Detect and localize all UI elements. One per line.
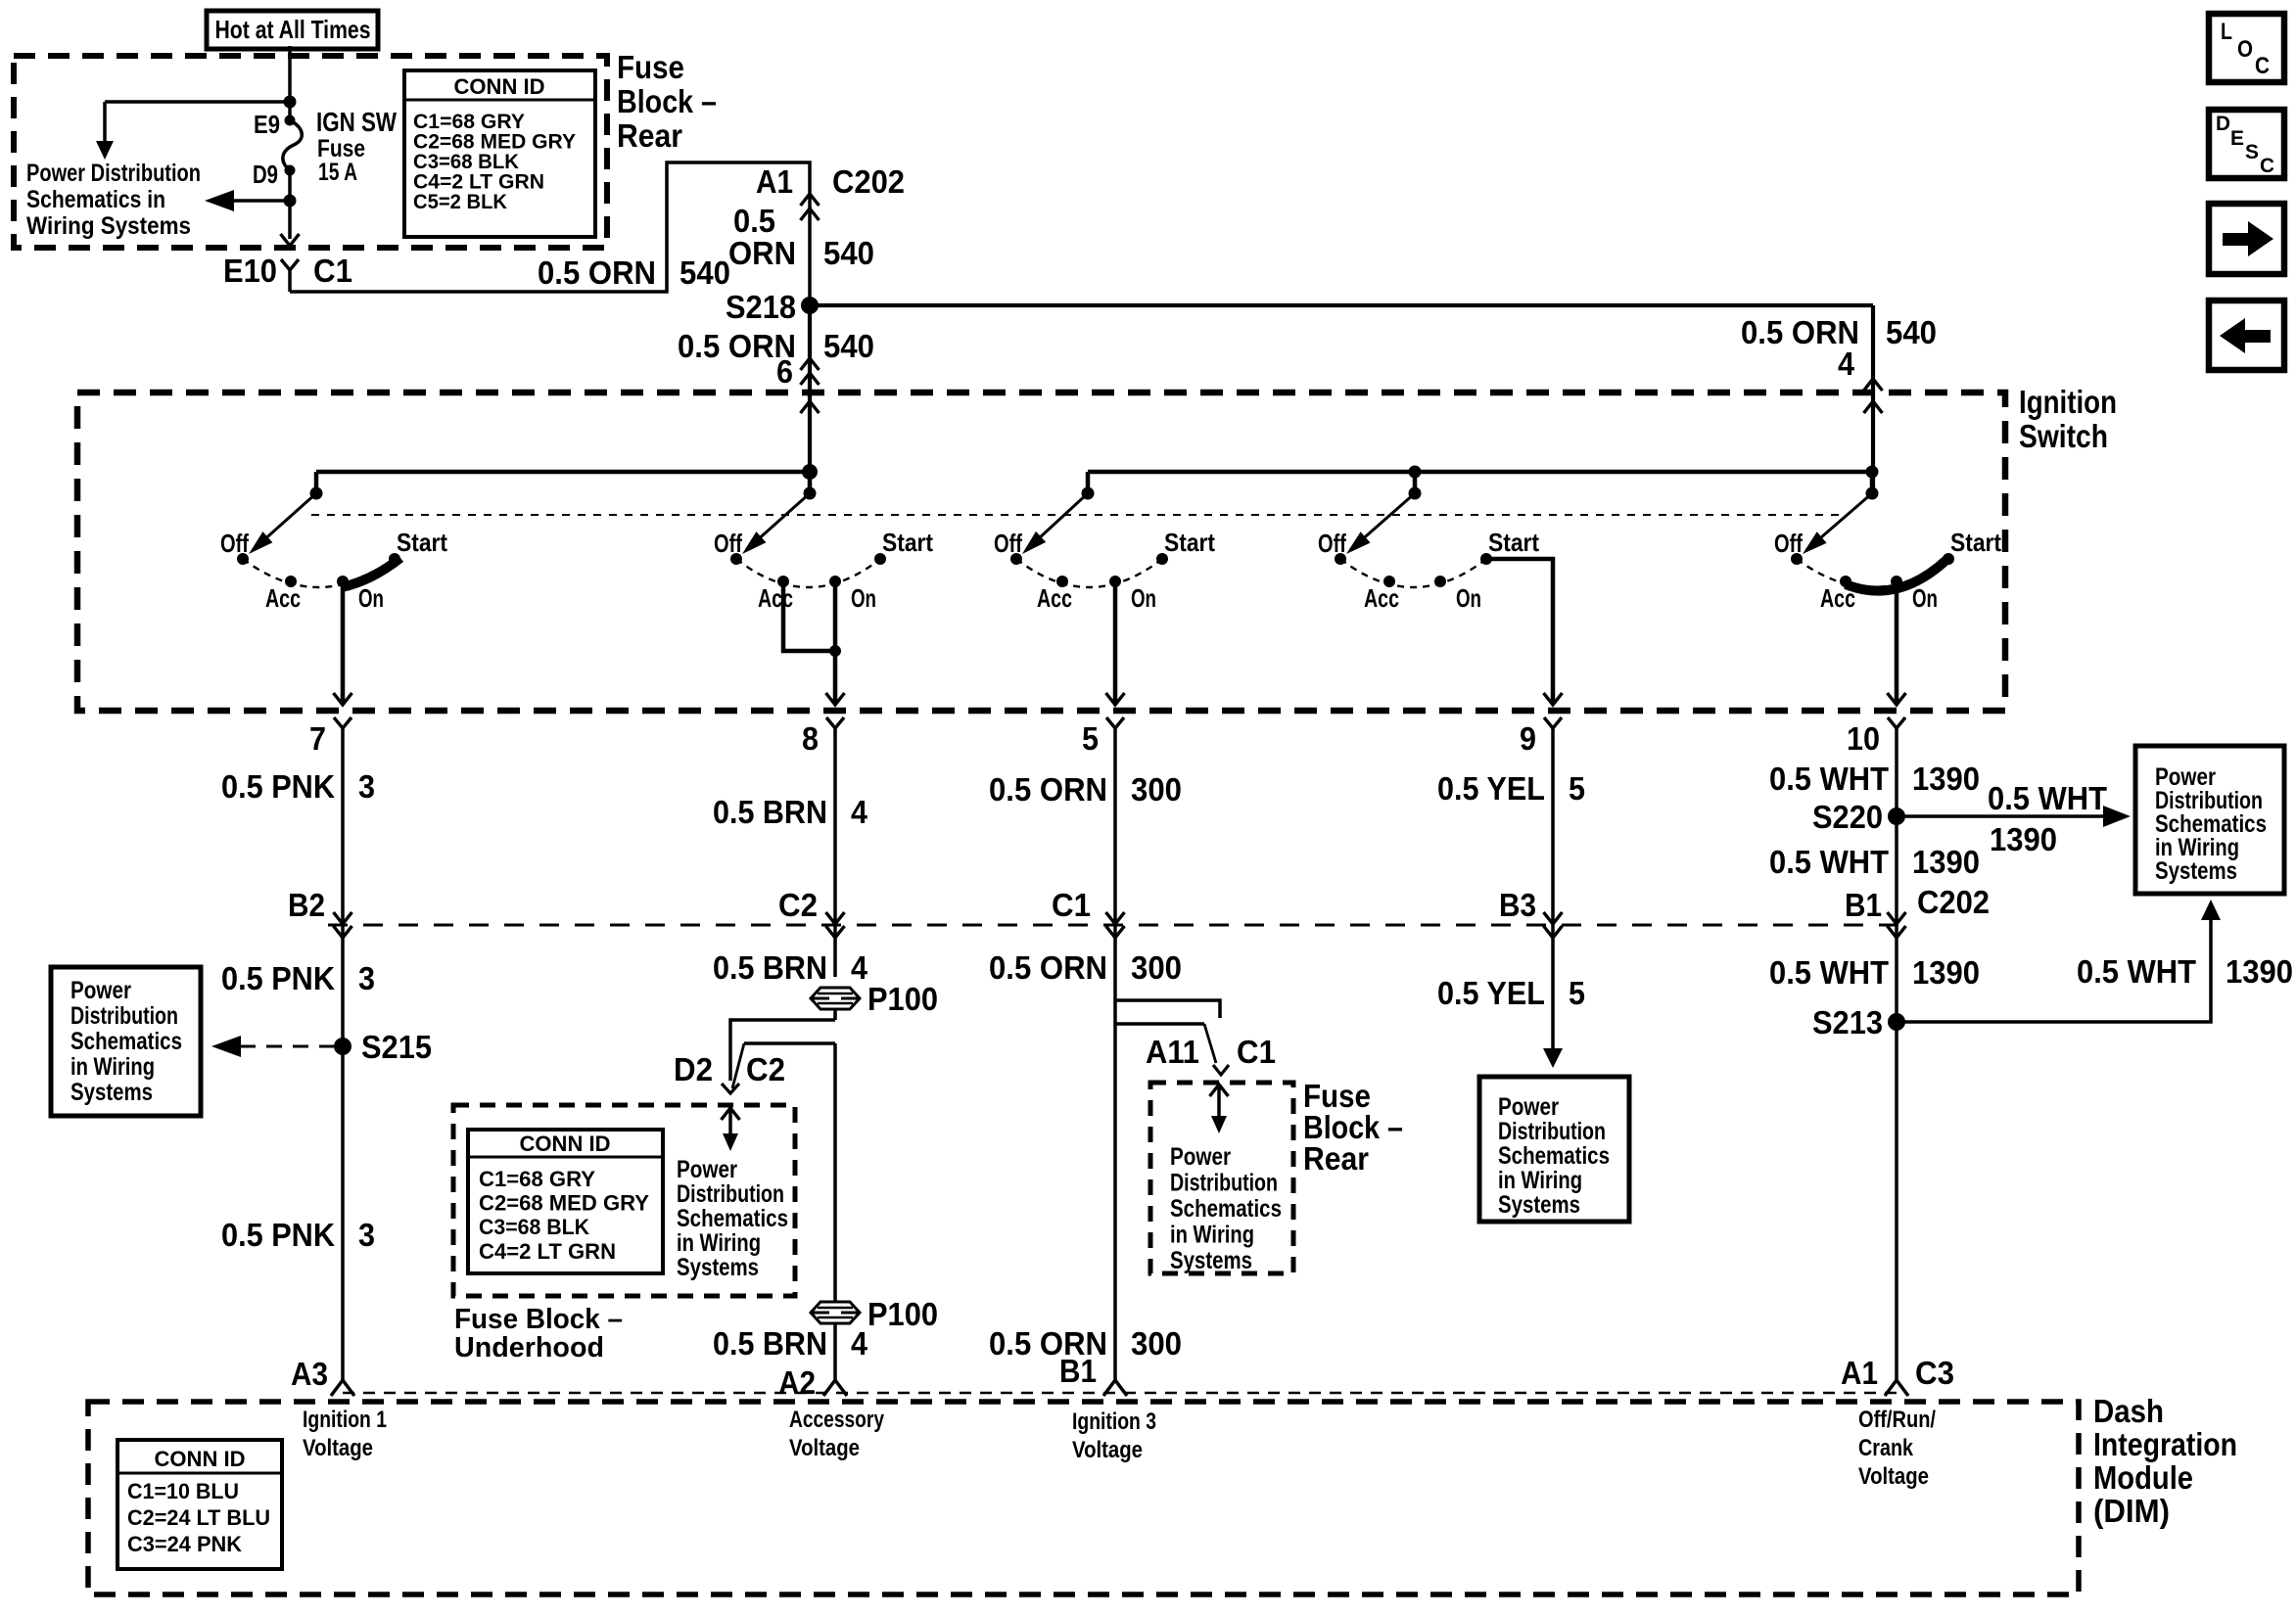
svg-text:C1: C1 xyxy=(313,253,352,289)
svg-text:Ignition 1: Ignition 1 xyxy=(303,1407,387,1433)
svg-text:Power: Power xyxy=(1170,1143,1231,1171)
svg-text:1390: 1390 xyxy=(1912,761,1980,797)
svg-text:A2: A2 xyxy=(778,1364,816,1401)
svg-text:C2: C2 xyxy=(746,1051,785,1087)
svg-text:0.5 PNK: 0.5 PNK xyxy=(221,960,335,996)
svg-text:C2: C2 xyxy=(778,887,818,923)
svg-text:540: 540 xyxy=(679,254,730,291)
svg-text:C3=24 PNK: C3=24 PNK xyxy=(127,1532,242,1556)
svg-text:Acc: Acc xyxy=(1037,583,1072,613)
svg-text:Systems: Systems xyxy=(677,1254,759,1281)
svg-text:On: On xyxy=(1912,583,1938,613)
svg-text:1390: 1390 xyxy=(1912,954,1980,991)
svg-text:0.5: 0.5 xyxy=(733,203,775,239)
svg-text:3: 3 xyxy=(358,768,375,805)
svg-text:0.5 WHT: 0.5 WHT xyxy=(1769,844,1889,880)
svg-text:C1: C1 xyxy=(1237,1034,1276,1070)
svg-text:A11: A11 xyxy=(1146,1034,1199,1070)
svg-text:Systems: Systems xyxy=(1170,1247,1252,1274)
svg-text:Schematics: Schematics xyxy=(1498,1142,1610,1170)
svg-text:C3: C3 xyxy=(1915,1355,1954,1391)
svg-text:CONN ID: CONN ID xyxy=(454,74,545,99)
svg-text:D9: D9 xyxy=(253,160,278,189)
svg-text:Ignition 3: Ignition 3 xyxy=(1072,1409,1156,1435)
svg-text:Wiring Systems: Wiring Systems xyxy=(26,212,191,240)
svg-text:C1: C1 xyxy=(1052,887,1091,923)
svg-text:Module: Module xyxy=(2093,1459,2193,1496)
svg-text:0.5 WHT: 0.5 WHT xyxy=(1769,761,1889,797)
svg-text:9: 9 xyxy=(1520,720,1536,757)
svg-text:Off: Off xyxy=(714,529,742,558)
svg-text:Power: Power xyxy=(1498,1093,1559,1121)
svg-text:Rear: Rear xyxy=(1303,1140,1369,1177)
svg-text:(DIM): (DIM) xyxy=(2093,1493,2170,1529)
svg-text:300: 300 xyxy=(1131,1325,1182,1362)
svg-text:Start: Start xyxy=(397,528,447,557)
svg-text:Rear: Rear xyxy=(617,117,682,154)
svg-text:5: 5 xyxy=(1082,720,1099,757)
svg-text:Schematics: Schematics xyxy=(677,1205,788,1232)
svg-text:1390: 1390 xyxy=(2226,953,2293,990)
svg-text:in Wiring: in Wiring xyxy=(1498,1167,1582,1194)
svg-text:5: 5 xyxy=(1569,770,1585,807)
svg-text:540: 540 xyxy=(1886,314,1937,350)
svg-text:A3: A3 xyxy=(291,1356,328,1392)
svg-text:0.5 YEL: 0.5 YEL xyxy=(1437,770,1545,807)
svg-text:0.5 WHT: 0.5 WHT xyxy=(1988,780,2107,816)
svg-text:S: S xyxy=(2245,141,2259,163)
svg-text:Crank: Crank xyxy=(1858,1435,1914,1461)
svg-text:Acc: Acc xyxy=(265,583,301,613)
svg-text:Voltage: Voltage xyxy=(1858,1463,1929,1490)
svg-text:CONN ID: CONN ID xyxy=(155,1447,246,1471)
svg-text:S213: S213 xyxy=(1812,1004,1883,1040)
svg-text:On: On xyxy=(1131,583,1156,613)
svg-text:Off: Off xyxy=(994,529,1022,558)
svg-text:1390: 1390 xyxy=(1912,844,1980,880)
svg-text:CONN ID: CONN ID xyxy=(520,1132,611,1156)
svg-text:Distribution: Distribution xyxy=(1170,1170,1278,1197)
svg-text:On: On xyxy=(851,583,876,613)
svg-text:Off: Off xyxy=(1774,529,1803,558)
svg-text:0.5 WHT: 0.5 WHT xyxy=(2077,953,2196,990)
svg-text:300: 300 xyxy=(1131,949,1182,986)
svg-text:Start: Start xyxy=(1488,528,1539,557)
svg-text:Block –: Block – xyxy=(617,83,717,119)
svg-text:4: 4 xyxy=(1838,346,1855,382)
svg-text:L: L xyxy=(2221,19,2232,45)
svg-text:C2=24 LT BLU: C2=24 LT BLU xyxy=(127,1505,270,1530)
svg-text:Acc: Acc xyxy=(758,583,793,613)
svg-text:P100: P100 xyxy=(867,1296,938,1332)
svg-text:Distribution: Distribution xyxy=(677,1180,784,1208)
svg-text:E9: E9 xyxy=(254,110,280,139)
svg-text:Off/Run/: Off/Run/ xyxy=(1858,1407,1936,1433)
svg-text:Distribution: Distribution xyxy=(70,1002,178,1030)
svg-text:0.5 ORN: 0.5 ORN xyxy=(989,771,1107,808)
svg-text:Distribution: Distribution xyxy=(1498,1118,1606,1145)
svg-text:300: 300 xyxy=(1131,771,1182,808)
svg-text:Dash: Dash xyxy=(2093,1393,2164,1429)
svg-text:Off: Off xyxy=(1318,529,1346,558)
svg-text:C3=68 BLK: C3=68 BLK xyxy=(479,1215,589,1239)
svg-text:15 A: 15 A xyxy=(318,159,357,186)
svg-text:C1=10 BLU: C1=10 BLU xyxy=(127,1479,239,1503)
svg-text:Start: Start xyxy=(1164,528,1215,557)
svg-text:Fuse: Fuse xyxy=(617,49,684,85)
svg-text:Acc: Acc xyxy=(1364,583,1399,613)
svg-text:B3: B3 xyxy=(1499,887,1536,923)
svg-text:C2=68 MED GRY: C2=68 MED GRY xyxy=(479,1191,649,1216)
svg-text:Integration: Integration xyxy=(2093,1426,2237,1462)
svg-text:D2: D2 xyxy=(674,1051,713,1087)
svg-text:D: D xyxy=(2216,113,2230,135)
svg-text:4: 4 xyxy=(851,949,868,986)
svg-text:ORN: ORN xyxy=(728,235,796,271)
svg-text:Schematics: Schematics xyxy=(1170,1195,1282,1223)
svg-text:C1=68 GRY: C1=68 GRY xyxy=(479,1167,595,1191)
svg-text:8: 8 xyxy=(802,720,819,757)
svg-text:S215: S215 xyxy=(361,1029,432,1065)
svg-text:in Wiring: in Wiring xyxy=(677,1229,761,1257)
svg-text:C5=2 BLK: C5=2 BLK xyxy=(413,191,507,213)
svg-text:0.5 PNK: 0.5 PNK xyxy=(221,1217,335,1253)
svg-text:B2: B2 xyxy=(288,887,325,923)
svg-text:0.5 ORN: 0.5 ORN xyxy=(538,254,656,291)
svg-text:0.5 BRN: 0.5 BRN xyxy=(713,949,827,986)
svg-text:Systems: Systems xyxy=(2155,857,2237,885)
svg-text:B1: B1 xyxy=(1059,1353,1097,1389)
svg-text:Fuse Block –: Fuse Block – xyxy=(454,1304,623,1335)
svg-text:Underhood: Underhood xyxy=(454,1332,604,1363)
svg-text:Systems: Systems xyxy=(1498,1191,1580,1219)
svg-text:540: 540 xyxy=(823,328,874,364)
svg-text:Schematics in: Schematics in xyxy=(26,186,165,213)
svg-text:S220: S220 xyxy=(1812,799,1883,835)
svg-text:0.5 WHT: 0.5 WHT xyxy=(1769,954,1889,991)
svg-text:Power Distribution: Power Distribution xyxy=(26,160,201,187)
svg-text:Voltage: Voltage xyxy=(789,1435,860,1461)
svg-text:3: 3 xyxy=(358,960,375,996)
svg-text:4: 4 xyxy=(851,1325,868,1362)
svg-text:540: 540 xyxy=(823,235,874,271)
svg-text:in Wiring: in Wiring xyxy=(70,1053,155,1081)
svg-text:Hot at All Times: Hot at All Times xyxy=(215,15,371,44)
svg-text:E: E xyxy=(2230,127,2244,150)
svg-text:O: O xyxy=(2237,36,2253,63)
svg-text:Start: Start xyxy=(1950,528,2001,557)
svg-text:Ignition: Ignition xyxy=(2019,384,2117,420)
svg-text:A1: A1 xyxy=(756,163,793,200)
svg-text:Accessory: Accessory xyxy=(789,1407,885,1433)
svg-text:E10: E10 xyxy=(223,253,277,289)
svg-text:in Wiring: in Wiring xyxy=(1170,1222,1254,1249)
svg-text:6: 6 xyxy=(776,353,793,390)
svg-text:0.5 BRN: 0.5 BRN xyxy=(713,794,827,830)
svg-text:Voltage: Voltage xyxy=(303,1435,373,1461)
svg-text:C202: C202 xyxy=(832,163,905,200)
svg-text:1390: 1390 xyxy=(1990,821,2057,857)
svg-text:5: 5 xyxy=(1569,975,1585,1011)
svg-text:Power: Power xyxy=(70,977,131,1004)
svg-text:A1: A1 xyxy=(1841,1355,1878,1391)
svg-text:Power: Power xyxy=(677,1156,737,1183)
svg-text:0.5 YEL: 0.5 YEL xyxy=(1437,975,1545,1011)
svg-text:7: 7 xyxy=(309,720,326,757)
svg-text:C202: C202 xyxy=(1917,884,1990,920)
svg-text:10: 10 xyxy=(1847,720,1880,757)
svg-text:Off: Off xyxy=(220,529,249,558)
svg-text:B1: B1 xyxy=(1845,887,1882,923)
svg-text:Switch: Switch xyxy=(2019,418,2108,454)
svg-text:Schematics: Schematics xyxy=(70,1028,182,1055)
svg-text:4: 4 xyxy=(851,794,868,830)
svg-text:0.5 BRN: 0.5 BRN xyxy=(713,1325,827,1362)
svg-text:0.5 PNK: 0.5 PNK xyxy=(221,768,335,805)
svg-text:Start: Start xyxy=(882,528,933,557)
svg-text:Systems: Systems xyxy=(70,1079,153,1106)
svg-text:Voltage: Voltage xyxy=(1072,1437,1143,1463)
svg-text:C: C xyxy=(2260,155,2274,177)
svg-text:On: On xyxy=(1456,583,1481,613)
svg-text:C4=2 LT GRN: C4=2 LT GRN xyxy=(479,1239,616,1264)
svg-text:0.5 ORN: 0.5 ORN xyxy=(989,949,1107,986)
svg-text:On: On xyxy=(358,583,384,613)
svg-text:P100: P100 xyxy=(867,981,938,1017)
svg-text:3: 3 xyxy=(358,1217,375,1253)
svg-text:IGN SW: IGN SW xyxy=(316,107,397,137)
svg-text:S218: S218 xyxy=(726,289,796,325)
svg-text:C: C xyxy=(2255,53,2270,79)
